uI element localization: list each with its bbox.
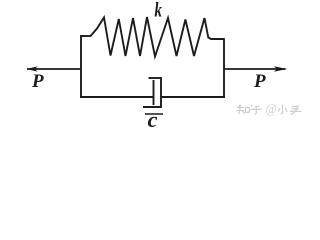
wire left lead bbox=[27, 68, 81, 70]
wire right vertical bar of frame bbox=[223, 38, 225, 98]
dashpot cylinder top wall bbox=[149, 77, 162, 79]
watermark 知乎 @小尹 bbox=[237, 102, 302, 116]
wire top-left stub to spring bbox=[80, 35, 91, 37]
dashpot cylinder bottom wall bbox=[143, 106, 162, 108]
glyph 尹 bbox=[292, 105, 300, 107]
dashpot base line bbox=[145, 113, 163, 115]
spring k bbox=[91, 17, 225, 57]
svg-text:c: c bbox=[148, 107, 158, 130]
svg-text:k: k bbox=[154, 0, 162, 22]
dashpot piston plate bbox=[153, 80, 155, 105]
wire right lead bbox=[224, 68, 286, 70]
glyph 知 bbox=[239, 105, 241, 108]
glyph 小 bbox=[281, 105, 283, 115]
node left arrowhead P direction bbox=[26, 66, 37, 71]
svg-text:P: P bbox=[31, 71, 44, 92]
dashpot cylinder right wall bbox=[160, 77, 162, 107]
node right arrowhead P direction bbox=[274, 66, 287, 71]
wire bottom rail left segment bbox=[80, 96, 153, 98]
wire bottom rail right segment bbox=[161, 96, 225, 98]
svg-text:P: P bbox=[253, 71, 266, 92]
glyph 乎 bbox=[251, 105, 253, 107]
svg-text:@: @ bbox=[266, 102, 278, 116]
wire left vertical bar of frame bbox=[80, 35, 82, 98]
